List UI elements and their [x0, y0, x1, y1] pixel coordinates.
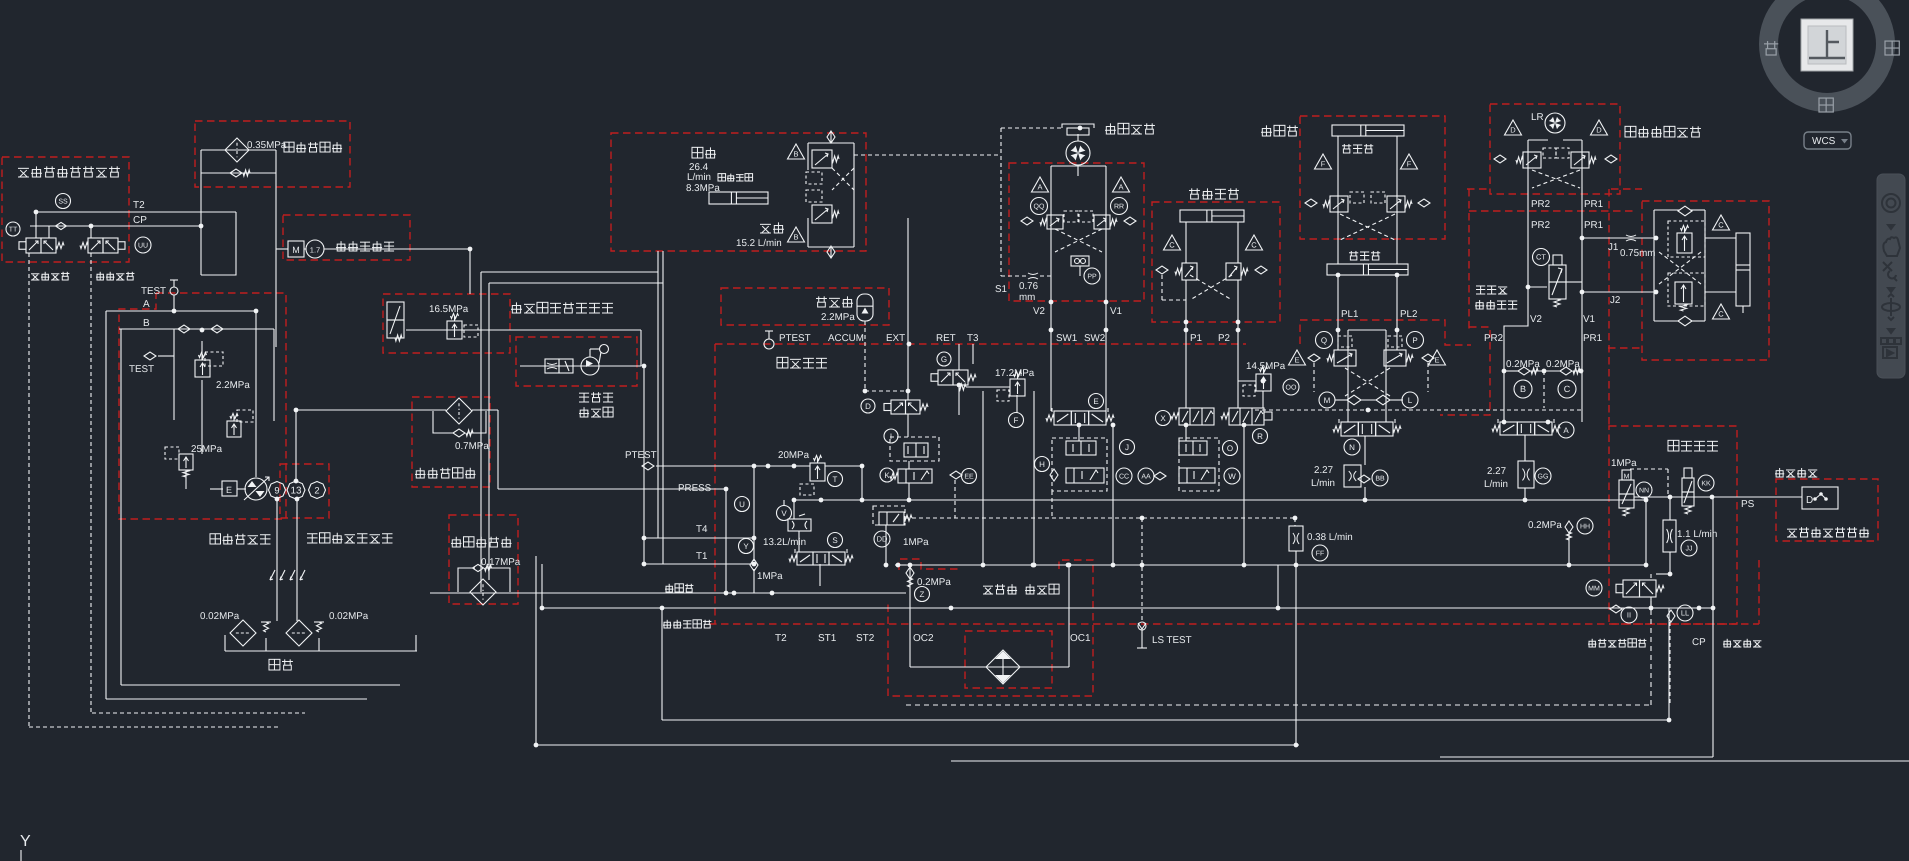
node BB — [1372, 470, 1388, 486]
svg-text:Y: Y — [20, 833, 31, 850]
wire dashed riser x1052 — [1051, 491, 1053, 518]
wire 14.5MPa drop — [1262, 391, 1264, 408]
warn F right — [1401, 154, 1418, 169]
wire motor stem — [1077, 134, 1079, 141]
svg-text:ST2: ST2 — [856, 633, 875, 644]
node CC — [1116, 468, 1132, 484]
node PP — [1084, 268, 1100, 284]
svg-text:DD: DD — [877, 535, 888, 544]
svg-text:E: E — [226, 485, 232, 495]
wire trunk y565 — [895, 564, 1646, 566]
pilot cross 主举升缸 — [1190, 275, 1232, 300]
shuttle check L — [1376, 395, 1390, 405]
svg-text:13: 13 — [291, 486, 302, 497]
svg-text:M: M — [1624, 474, 1630, 481]
wire E valve drops — [1078, 425, 1080, 441]
node OO — [1283, 379, 1299, 395]
label 缩回 — [760, 224, 771, 233]
node H — [1035, 457, 1050, 472]
relief 20MPa — [810, 463, 825, 481]
node SS — [56, 194, 71, 209]
wire II/LL segment — [1605, 607, 1712, 609]
tank filter right — [286, 620, 312, 646]
svg-text:M: M — [292, 245, 300, 255]
warn A right — [1113, 177, 1130, 192]
valve group H/CC dashed — [1052, 438, 1107, 491]
svg-text:1MPa: 1MPa — [757, 571, 783, 582]
node CT — [1533, 249, 1550, 266]
label 选择阀块 — [1475, 300, 1484, 309]
relief 14.5 — [1256, 374, 1271, 391]
test point TEST2 — [144, 352, 156, 360]
wire gen riser down to T-lines — [643, 366, 645, 564]
svg-text:PRESS: PRESS — [678, 483, 712, 494]
svg-text:ACCUM: ACCUM — [828, 333, 864, 344]
node MM — [1586, 580, 1602, 596]
node V — [777, 506, 792, 521]
node JJ — [1681, 540, 1697, 556]
svg-text:C: C — [1718, 221, 1724, 230]
svg-text:V2: V2 — [1530, 314, 1542, 325]
warn C J lower — [1713, 304, 1730, 319]
wire trunk y500 — [794, 499, 1646, 501]
svg-text:SW1: SW1 — [1056, 333, 1077, 344]
wire CT links — [1528, 286, 1547, 288]
svg-text:F: F — [1014, 416, 1019, 425]
svg-text:N: N — [1349, 443, 1355, 452]
wire T3 riser — [972, 344, 974, 364]
label 调平缸 — [1261, 125, 1272, 136]
wire dashed riser x1142 LS TEST — [1141, 518, 1143, 621]
pump M 辅助液压泵 — [288, 241, 304, 257]
red dashed enclosure 回油过滤器 — [449, 515, 518, 604]
wire PL2 riser — [1396, 275, 1398, 350]
valve 发电机 priority — [545, 359, 559, 373]
svg-text:NN: NN — [1639, 488, 1649, 495]
wire 13.2 flow to S valve — [793, 500, 795, 519]
svg-text:S: S — [832, 536, 837, 545]
wire relief block links — [201, 380, 203, 454]
node NN — [1636, 482, 1652, 498]
pump 发电机 motor — [581, 357, 599, 375]
wire pump block right riser — [255, 311, 257, 477]
wire T2 line — [36, 211, 236, 213]
wire bottom-left long horizontal 2 — [106, 698, 367, 700]
svg-text:L/min: L/min — [687, 172, 711, 183]
svg-text:1.7: 1.7 — [310, 246, 320, 255]
red dashed enclosure 回转马达 — [1009, 163, 1144, 301]
check under filter — [453, 429, 465, 437]
svg-text:mm: mm — [1019, 292, 1035, 303]
wire dashed FF stem — [1294, 518, 1296, 526]
check J bottom — [1678, 316, 1692, 326]
label 高压滤油器 — [415, 468, 426, 478]
check Z with spring — [906, 567, 914, 579]
label 伸出 — [692, 147, 703, 158]
svg-text:BB: BB — [1375, 476, 1385, 483]
red dashed enclosure 行走变量泵 — [119, 293, 286, 519]
wire P1 riser — [1185, 322, 1187, 408]
shuttle check M — [1347, 395, 1361, 405]
wire dashed pilot trunk y518 — [905, 517, 1295, 519]
wire bottom-left long horizontal 1 — [121, 684, 400, 686]
wire dashed pilot drop right valve — [90, 253, 92, 713]
wire dashed CP drop — [1669, 622, 1671, 705]
wire breather stems — [265, 638, 267, 651]
valve N proportional — [1341, 422, 1358, 436]
node G — [937, 352, 951, 366]
label 限位开关 bottom — [1723, 639, 1731, 647]
label 车桥控制油路 — [1588, 639, 1596, 647]
wire riser x908 EXT — [907, 218, 909, 344]
wire riser x959 G valve — [958, 385, 960, 415]
check C — [1560, 367, 1572, 375]
svg-text:LS TEST: LS TEST — [1152, 635, 1192, 646]
red dashed enclosure 调平缸 — [1300, 116, 1445, 239]
node II — [1621, 607, 1637, 623]
red dashed trunk bottom edge — [709, 623, 1759, 625]
valve D solenoid — [891, 400, 906, 414]
test point TEST1 — [170, 287, 178, 295]
wire PR2 riser — [1504, 194, 1528, 422]
svg-text:1MPa: 1MPa — [1611, 458, 1637, 469]
wire brake valve risers — [35, 212, 37, 238]
svg-text:V1: V1 — [1110, 306, 1122, 317]
svg-text:T2: T2 — [775, 633, 787, 644]
node UU — [135, 237, 151, 253]
svg-text:T: T — [833, 475, 838, 484]
counterbalance 平台 right — [1571, 152, 1589, 168]
red dashed enclosure Q/P counterbalance block — [1300, 320, 1471, 345]
wire T1 line — [644, 563, 754, 565]
svg-text:HH: HH — [1580, 524, 1590, 531]
wire U/Y riser — [753, 466, 755, 561]
wire bottom trunk y760 — [951, 760, 1909, 762]
red dashed enclosure 扩桥压力继电器 — [1776, 479, 1878, 541]
warn B upper — [788, 144, 805, 159]
label 从动缸 — [1342, 144, 1351, 153]
wire 0.35MPa filter top — [201, 149, 276, 151]
suction arrows — [270, 570, 275, 580]
relief 主举升缸 left — [1182, 263, 1197, 280]
valve KK — [1682, 478, 1694, 492]
wire dashed LS trunk y705 — [906, 704, 1651, 706]
node Q — [1316, 332, 1333, 349]
svg-text:V2: V2 — [1033, 306, 1045, 317]
wire dashed horizontal bottom-left outer — [29, 726, 279, 728]
wire A/GG drop — [1524, 435, 1526, 461]
平台回转马达 loop — [1527, 140, 1529, 194]
svg-text:CP: CP — [1692, 637, 1706, 648]
svg-text:2.27: 2.27 — [1487, 466, 1506, 477]
check 调平缸 right — [1418, 199, 1430, 207]
wire left long riser B — [120, 329, 122, 685]
check valves on B line — [178, 325, 190, 333]
svg-text:15.2 L/min: 15.2 L/min — [736, 238, 782, 249]
wire dashed accumulator drop — [864, 321, 866, 391]
warn C J upper — [1713, 215, 1730, 230]
node Z — [915, 587, 930, 602]
valve S proportional — [797, 552, 813, 565]
svg-text:J: J — [1125, 443, 1129, 452]
node B — [1514, 380, 1532, 398]
svg-text:T4: T4 — [696, 524, 708, 535]
wire TEST2 lead — [158, 355, 174, 357]
node FF — [1312, 545, 1328, 561]
svg-text:13.2L/min: 13.2L/min — [763, 537, 806, 548]
flow 0.38 FF — [1289, 526, 1303, 551]
svg-text:V: V — [781, 509, 787, 518]
check BB — [1358, 475, 1370, 483]
wire B line — [119, 328, 274, 330]
wire 回油路 trunk — [430, 592, 906, 594]
flow GG — [1518, 461, 1534, 488]
check 0.17 — [473, 564, 484, 571]
pilot cross J — [1659, 252, 1701, 284]
pilot cross Q/P — [1345, 368, 1390, 396]
wire dashed riser x955 — [954, 480, 956, 518]
counterbalance 调平缸 right — [1387, 196, 1405, 212]
wire bottom right horizontal y758 — [1440, 756, 1713, 758]
node N — [1344, 439, 1360, 455]
svg-text:E: E — [1434, 356, 1439, 365]
flow 2.27 BB — [1344, 465, 1361, 487]
wire SW1 riser — [1050, 302, 1052, 411]
wire riser x1278 — [1277, 565, 1279, 608]
wire riser x536 — [535, 556, 537, 745]
cylinder J vertical — [1736, 233, 1750, 306]
wire aux pump riser to 16.5 block — [469, 249, 471, 294]
node QQ — [1031, 198, 1048, 215]
check EE — [950, 471, 962, 479]
valve R — [1229, 408, 1264, 425]
svg-text:PS: PS — [1741, 499, 1755, 510]
svg-text:C: C — [1718, 310, 1724, 319]
red dashed enclosure 中压滤油器 — [195, 121, 350, 187]
check valve with spring — [230, 169, 242, 177]
wire filter bypass loop — [433, 411, 453, 433]
warn D right — [1591, 120, 1608, 135]
check B — [1518, 367, 1530, 375]
label 油箱 — [269, 659, 280, 670]
counterbalance QQ — [1047, 215, 1063, 229]
svg-text:0.2MPa: 0.2MPa — [1506, 359, 1540, 370]
node R — [1253, 429, 1268, 444]
svg-text:2: 2 — [314, 485, 319, 495]
valve A proportional — [1500, 422, 1517, 435]
wire pump outputs to tank — [276, 499, 278, 621]
counterbalance 调平缸 left — [1330, 196, 1348, 212]
wire riser x1034 — [1033, 391, 1035, 565]
node F — [1009, 413, 1024, 428]
red dashed link 平台回转马达 to J block — [1467, 188, 1491, 190]
red dashed enclosure 功能阀块 left edge — [714, 344, 716, 624]
svg-text:A: A — [1037, 183, 1042, 192]
label 扩桥压力继电器 — [1787, 529, 1797, 537]
svg-text:PR1: PR1 — [1584, 199, 1603, 210]
relief valve 16.5MPa — [447, 321, 462, 339]
svg-text:PTEST: PTEST — [625, 450, 657, 461]
red dashed enclosure 功能阀块 top edge — [715, 343, 1246, 345]
svg-text:B: B — [793, 150, 798, 159]
svg-text:RR: RR — [1114, 204, 1124, 211]
svg-text:T2: T2 — [133, 200, 145, 211]
node J — [1120, 440, 1135, 455]
warn D left — [1505, 120, 1522, 135]
svg-text:PTEST: PTEST — [779, 333, 811, 344]
filter 高压滤油器 — [446, 398, 472, 424]
node T — [828, 472, 843, 487]
node U — [735, 497, 750, 512]
valve K — [898, 469, 932, 483]
wire G valve feed — [958, 344, 960, 370]
valve E proportional — [1054, 411, 1071, 425]
red dashed enclosure 主举升缸 — [1152, 202, 1280, 322]
svg-text:T1: T1 — [696, 551, 707, 562]
red dashed enclosure 刹车变速互换控制 — [2, 157, 129, 262]
check 平台 left — [1494, 155, 1506, 163]
svg-text:0.35MPa: 0.35MPa — [247, 140, 287, 151]
wire dashed ext pilot to motor — [854, 154, 1001, 156]
pump hex 13 — [287, 481, 305, 499]
label 回油过滤器 — [451, 537, 462, 547]
wire F riser — [1016, 395, 1018, 413]
wire MM jog — [1656, 573, 1670, 575]
motor bracket 回转马达 — [1062, 124, 1094, 128]
svg-text:B: B — [1520, 384, 1526, 394]
svg-text:PR1: PR1 — [1583, 333, 1602, 344]
svg-text:C: C — [1169, 241, 1175, 250]
svg-text:L: L — [1408, 396, 1413, 405]
wire PS line — [1634, 496, 1776, 498]
svg-text:H: H — [1039, 460, 1045, 469]
svg-text:EE: EE — [964, 474, 974, 481]
svg-text:D: D — [1510, 126, 1516, 135]
WCS button — [1804, 132, 1851, 149]
node W — [1224, 468, 1240, 484]
node I — [884, 429, 898, 443]
svg-text:JJ: JJ — [1686, 546, 1693, 553]
check 平台 right — [1605, 155, 1617, 163]
svg-text:2.2MPa: 2.2MPa — [216, 380, 250, 391]
wire dashed riser x1651 — [1650, 601, 1652, 705]
counterbalance P — [1384, 350, 1406, 366]
wire T1 segment right — [895, 564, 906, 566]
wire 回转马达 loop — [1050, 166, 1052, 302]
svg-text:II: II — [1627, 611, 1631, 620]
wire 17.2MPa lead — [966, 386, 1010, 388]
wire gen block bus — [520, 365, 641, 367]
label 蓄能器 — [816, 296, 827, 307]
svg-text:PL2: PL2 — [1400, 309, 1417, 320]
red dashed cooler inner box — [965, 631, 1052, 688]
svg-text:A: A — [1118, 183, 1123, 192]
svg-text:A: A — [143, 299, 150, 310]
svg-text:X: X — [1160, 414, 1166, 423]
svg-text:PP: PP — [1087, 274, 1097, 281]
test point PTEST lower — [642, 462, 654, 470]
wire cooler bottom — [910, 666, 986, 668]
wire S valve drop — [819, 564, 821, 586]
cylinder 主动缸 — [1327, 264, 1408, 275]
check AA — [1154, 472, 1166, 480]
node X — [1156, 411, 1171, 426]
node Y — [739, 539, 754, 554]
wire J2 line — [1582, 291, 1654, 293]
label 刹车变速互换控制 — [18, 168, 29, 177]
svg-text:K: K — [884, 471, 890, 480]
node P — [1407, 332, 1424, 349]
svg-text:TT: TT — [9, 227, 18, 234]
wire JJ column — [1669, 497, 1671, 520]
svg-text:P2: P2 — [1218, 333, 1230, 344]
check J top — [1678, 206, 1692, 216]
svg-text:CC: CC — [1119, 474, 1129, 481]
wire nested corner lines — [481, 271, 658, 273]
node O — [1223, 441, 1238, 456]
counterbalance 平台 left — [1523, 152, 1541, 168]
check left — [1156, 266, 1168, 274]
node HH — [1577, 518, 1593, 534]
node C — [1558, 380, 1576, 398]
wire 高压滤油器 feed — [296, 409, 446, 411]
svg-text:D: D — [1596, 126, 1602, 135]
node TT — [6, 222, 20, 236]
svg-text:F: F — [1407, 160, 1412, 169]
wire pump drive line — [237, 488, 246, 490]
svg-text:PR1: PR1 — [1584, 220, 1603, 231]
node GG — [1535, 468, 1551, 484]
relief valve mid — [227, 421, 241, 437]
wire Q/P loop — [1347, 330, 1349, 422]
svg-text:P1: P1 — [1190, 333, 1202, 344]
svg-text:9: 9 — [274, 485, 279, 495]
wire dashed NN pilot — [1630, 468, 1668, 470]
red dashed enclosure 蓄能器 — [721, 288, 889, 325]
node A — [1558, 422, 1574, 438]
label 发电机 — [579, 393, 589, 402]
wire Z drop — [909, 565, 911, 570]
svg-text:O: O — [1227, 444, 1233, 453]
svg-text:J2: J2 — [1610, 295, 1620, 306]
svg-text:L/min: L/min — [1484, 479, 1508, 490]
wire PTEST line — [656, 465, 810, 467]
wire 高压滤油器 out — [472, 409, 498, 411]
svg-text:QQ: QQ — [1034, 204, 1045, 211]
wire B/C block dashed — [1543, 371, 1545, 408]
node D — [861, 399, 875, 413]
wire shuttle stem — [1079, 266, 1081, 276]
valve NN — [1619, 480, 1634, 494]
wire 14.5MPa branch — [1238, 380, 1256, 382]
svg-text:1.1 L/min: 1.1 L/min — [1677, 529, 1717, 540]
wire bottom trunk y745 — [536, 744, 1299, 746]
filter 0.35MPa 中压滤油器 — [225, 138, 249, 162]
svg-text:R: R — [1257, 432, 1263, 441]
svg-text:2.2MPa: 2.2MPa — [821, 312, 855, 323]
label 选购件发电机阀块 — [511, 302, 522, 313]
node DD — [874, 531, 890, 547]
valve X — [1179, 408, 1214, 425]
svg-text:S1: S1 — [995, 284, 1007, 295]
svg-text:OO: OO — [1286, 385, 1297, 392]
wire dashed brake box — [1000, 128, 1002, 276]
wire 20MPa drop — [861, 466, 863, 500]
valve gen block solenoid vertical — [387, 302, 404, 320]
svg-text:V1: V1 — [1583, 314, 1595, 325]
LS TEST point — [1138, 622, 1146, 630]
label 援动臂 — [1476, 286, 1485, 294]
